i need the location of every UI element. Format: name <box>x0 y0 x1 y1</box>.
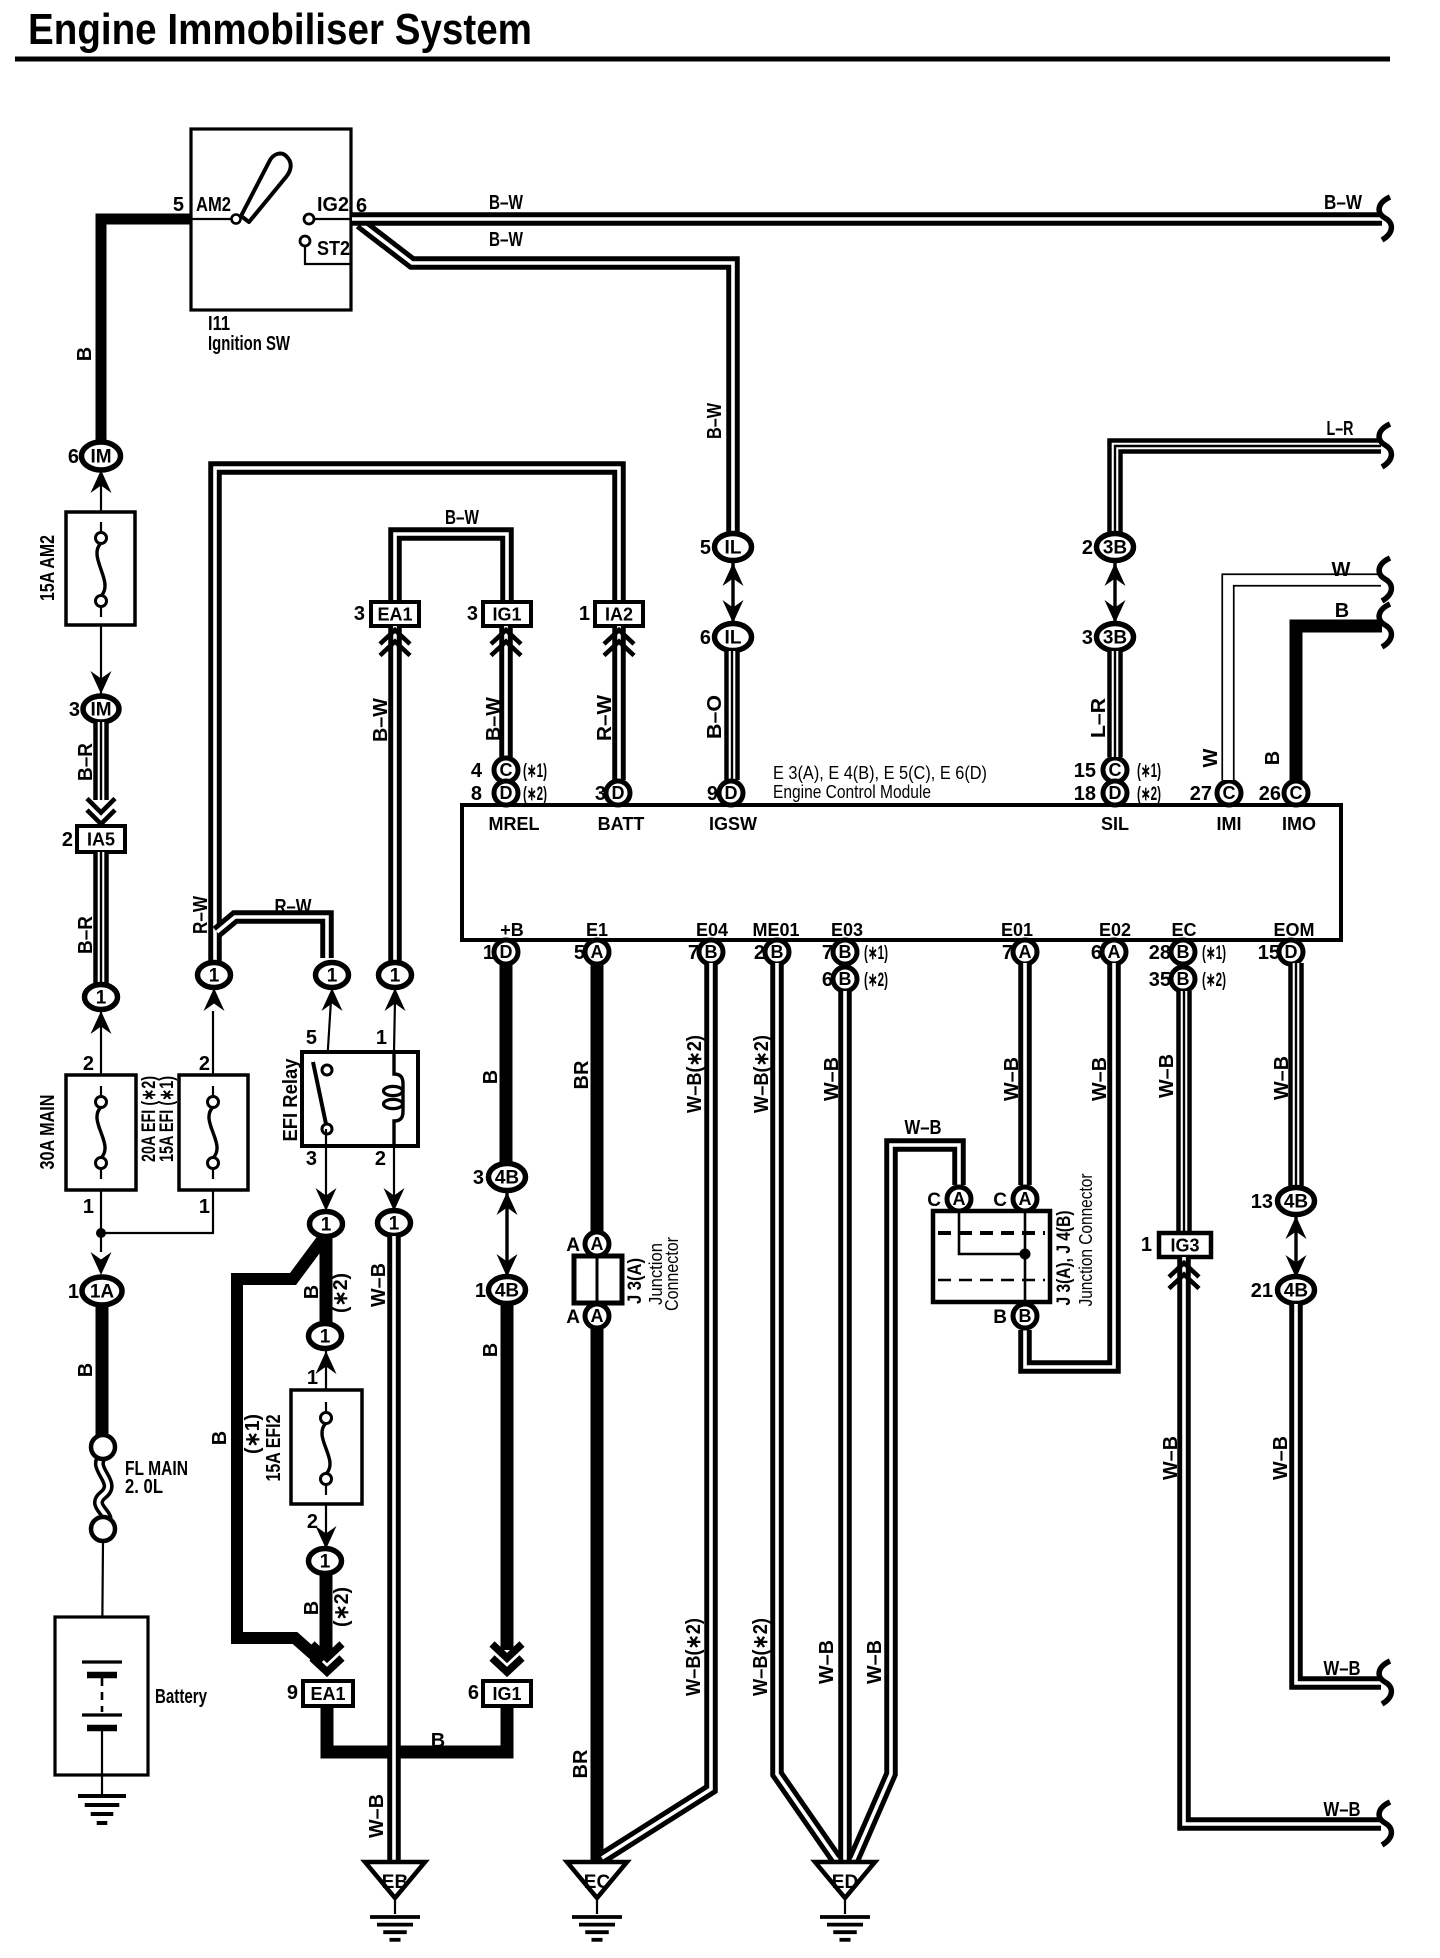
svg-text:ST2: ST2 <box>317 238 350 260</box>
svg-text:A: A <box>591 1306 604 1326</box>
svg-text:3: 3 <box>354 603 365 625</box>
svg-text:D: D <box>725 783 738 803</box>
svg-text:IL: IL <box>725 538 742 559</box>
wire W-B from ECM EOM down to 13 4B <box>1288 963 1304 1187</box>
wire B-W bridge between EA1 and IG1 tops <box>395 534 507 602</box>
svg-text:1: 1 <box>390 966 401 987</box>
connector 1 (above relay pin 1) <box>379 963 412 988</box>
svg-text:B–O: B–O <box>704 695 726 739</box>
wire W-B(*2) from ECM E04 down to EC ground <box>602 963 711 1858</box>
svg-text:EB: EB <box>382 1872 408 1893</box>
svg-text:1A: 1A <box>90 1282 115 1303</box>
svg-text:B: B <box>301 1285 323 1299</box>
svg-text:W–B(∗2): W–B(∗2) <box>683 1618 705 1696</box>
wire: thick B wire from ignition switch AM2 pin down to connector IM <box>101 219 191 443</box>
junction connector J3(A),J4(B) box <box>933 1211 1050 1302</box>
svg-text:IM: IM <box>90 700 111 721</box>
svg-text:9: 9 <box>707 783 718 805</box>
svg-text:1: 1 <box>389 1214 400 1235</box>
wire W-B from IG3 down to right edge <box>1184 1257 1381 1824</box>
wire B-R from IA5 down to connector 1 <box>93 852 109 984</box>
svg-text:2. 0L: 2. 0L <box>125 1476 163 1498</box>
ground EB <box>365 1862 425 1898</box>
svg-text:6: 6 <box>68 446 79 468</box>
svg-text:1: 1 <box>579 603 590 625</box>
svg-text:1: 1 <box>209 966 220 987</box>
svg-text:15A AM2: 15A AM2 <box>37 535 59 601</box>
svg-text:E 3(A), E 4(B), E 5(C), E 6(D): E 3(A), E 4(B), E 5(C), E 6(D) <box>773 763 987 783</box>
svg-text:B: B <box>480 1343 502 1357</box>
svg-text:IG3: IG3 <box>1170 1236 1199 1256</box>
svg-text:6: 6 <box>468 1682 479 1704</box>
EFI Relay box <box>302 1052 418 1146</box>
svg-text:EA1: EA1 <box>377 605 412 625</box>
svg-text:EC: EC <box>584 1872 611 1893</box>
svg-text:A: A <box>1019 1189 1032 1209</box>
arrows between 4B connectors <box>505 1191 508 1277</box>
svg-text:B–W: B–W <box>370 698 392 742</box>
svg-text:R–W: R–W <box>594 695 616 741</box>
svg-text:1: 1 <box>376 1027 387 1049</box>
fuse 30A MAIN <box>66 1075 136 1190</box>
svg-text:W–B: W–B <box>1271 1056 1293 1100</box>
arrow into 1A connector <box>91 1252 112 1275</box>
svg-text:W–B(∗2): W–B(∗2) <box>751 1035 773 1113</box>
svg-text:IM: IM <box>90 447 111 468</box>
wire B thick from EA1 to IG1 (bottom bar) <box>327 1706 507 1752</box>
wire W-B from relay connector down to EB ground <box>387 1236 401 1861</box>
wire: B-W branch from IG2 down to connector IL (5) <box>360 223 733 534</box>
svg-text:A: A <box>591 1234 604 1254</box>
svg-text:W: W <box>1200 748 1222 767</box>
connector 1 (below IA5) <box>85 985 118 1010</box>
svg-text:IGSW: IGSW <box>709 814 757 834</box>
svg-text:B: B <box>993 1307 1007 1328</box>
svg-text:1: 1 <box>1141 1234 1152 1256</box>
svg-text:Engine Immobiliser System: Engine Immobiliser System <box>28 5 532 54</box>
svg-text:W–B: W–B <box>1160 1436 1182 1480</box>
svg-text:E1: E1 <box>586 920 608 940</box>
svg-text:IG1: IG1 <box>492 605 521 625</box>
svg-text:W–B: W–B <box>864 1640 886 1684</box>
fuse 15A AM2 <box>66 512 135 625</box>
wire L-R from 3B to ECM SIL <box>1107 651 1123 757</box>
arrows between 3B connectors <box>1113 561 1116 623</box>
svg-text:1: 1 <box>320 1552 331 1573</box>
svg-text:W–B: W–B <box>821 1057 843 1101</box>
svg-text:BR: BR <box>571 1060 593 1089</box>
svg-text:15: 15 <box>1074 760 1096 782</box>
wire W-B loop from J3/J4 C pin to ED ground <box>854 1145 959 1859</box>
svg-text:ME01: ME01 <box>752 920 799 940</box>
svg-text:EA1: EA1 <box>310 1684 345 1704</box>
svg-text:4: 4 <box>471 760 483 782</box>
svg-text:B–W: B–W <box>445 507 479 529</box>
svg-text:28: 28 <box>1149 942 1171 964</box>
arrows between IL connectors <box>731 561 734 623</box>
svg-text:B–W: B–W <box>489 229 523 251</box>
svg-text:B: B <box>1177 969 1190 989</box>
battery cell plates <box>82 1660 122 1663</box>
svg-text:Junction Connector: Junction Connector <box>1076 1173 1096 1306</box>
svg-text:B: B <box>771 942 784 962</box>
svg-text:5: 5 <box>173 194 184 216</box>
svg-text:3B: 3B <box>1103 538 1127 559</box>
svg-text:5: 5 <box>306 1027 317 1049</box>
svg-text:AM2: AM2 <box>196 194 231 216</box>
svg-text:2: 2 <box>307 1511 318 1533</box>
svg-text:A: A <box>566 1307 580 1328</box>
svg-text:A: A <box>566 1235 580 1256</box>
connector 1 (above 15A EFI2) <box>309 1324 342 1349</box>
svg-text:A: A <box>591 942 604 962</box>
ignition switch I11 box <box>191 129 351 310</box>
svg-text:B: B <box>839 942 852 962</box>
svg-text:15A EFI2: 15A EFI2 <box>263 1415 285 1482</box>
svg-text:W–B: W–B <box>366 1794 388 1838</box>
wire from fusible link to battery <box>102 1541 103 1662</box>
svg-text:D: D <box>612 783 625 803</box>
svg-text:E02: E02 <box>1099 920 1131 940</box>
svg-text:1: 1 <box>321 1215 332 1236</box>
svg-text:W–B: W–B <box>1324 1658 1361 1680</box>
wire from fuse to 3 IM <box>100 625 102 694</box>
svg-text:(∗1): (∗1) <box>1202 943 1226 964</box>
svg-text:W–B: W–B <box>1270 1436 1292 1480</box>
wire B(*1) thick loop from relay connector to 9 EA1 <box>237 1240 322 1662</box>
wire B-R from IM to junction IA5 <box>93 722 109 800</box>
svg-text:(∗2): (∗2) <box>331 1587 353 1627</box>
svg-text:1: 1 <box>96 988 107 1009</box>
AM2 terminal <box>191 218 233 220</box>
wire: B-W from IG2 pin 6 to right edge <box>352 212 1382 226</box>
wire W-B from ECM E02 down to J3/J4 B pin <box>1025 963 1114 1367</box>
wire W-B from 21 4B down to right edge <box>1296 1304 1381 1683</box>
svg-text:A: A <box>1108 942 1121 962</box>
svg-text:1: 1 <box>475 1280 486 1302</box>
svg-text:I11: I11 <box>208 313 230 335</box>
svg-text:E03: E03 <box>831 920 863 940</box>
key symbol inside ignition switch <box>241 154 291 222</box>
svg-text:1: 1 <box>199 1196 210 1218</box>
svg-text:B: B <box>1262 751 1284 765</box>
wire thick B from 1A to fusible link <box>96 1305 109 1437</box>
svg-text:B: B <box>301 1601 323 1615</box>
svg-text:C: C <box>927 1190 941 1211</box>
svg-text:B–R: B–R <box>75 742 97 781</box>
svg-text:(∗2): (∗2) <box>864 970 888 991</box>
wire R-W branch to EFI relay pin 5 <box>217 917 327 958</box>
svg-text:3: 3 <box>473 1167 484 1189</box>
svg-text:(∗1): (∗1) <box>1137 761 1161 782</box>
wire BR thick from ECM E1 down to J3(A) <box>591 963 604 1232</box>
thick arrow into 9 EA1 <box>312 1644 342 1658</box>
svg-text:MREL: MREL <box>489 814 540 834</box>
svg-text:W–B: W–B <box>905 1117 942 1139</box>
svg-text:W–B(∗2): W–B(∗2) <box>684 1035 706 1113</box>
wire B (thick) from ECM IMO to right edge <box>1296 626 1382 780</box>
svg-text:(∗1): (∗1) <box>864 943 888 964</box>
svg-text:EFI Relay: EFI Relay <box>280 1058 302 1142</box>
svg-text:D: D <box>1109 783 1122 803</box>
thick arrow into 6 IG1 <box>492 1644 522 1658</box>
relay switch contact <box>313 1062 326 1124</box>
Engine Control Module box <box>462 805 1341 940</box>
wire from 15A EFI2 pin 2 down <box>325 1504 327 1549</box>
wire B-W from EA1 down to relay coil connector <box>388 626 402 962</box>
svg-text:BR: BR <box>570 1749 592 1778</box>
wire from 20A EFI fuse pin 2 up to connector 1 <box>212 1011 214 1075</box>
svg-text:B: B <box>431 1730 445 1752</box>
wire L-R from 3B connector to right edge <box>1115 446 1381 533</box>
wire from junction dot to 20A EFI fuse pin 1 <box>101 1190 213 1233</box>
svg-text:Connector: Connector <box>662 1237 682 1311</box>
svg-text:9: 9 <box>287 1682 298 1704</box>
ST2 terminal <box>305 246 350 264</box>
svg-text:B: B <box>1019 1306 1032 1326</box>
svg-text:W–B: W–B <box>1324 1799 1361 1821</box>
svg-text:(∗2): (∗2) <box>1137 784 1161 805</box>
connector 1 (below relay pin 3) <box>310 1212 343 1237</box>
svg-text:4B: 4B <box>1284 1281 1308 1302</box>
svg-text:(∗1): (∗1) <box>242 1414 264 1454</box>
svg-text:D: D <box>500 942 513 962</box>
svg-text:B–W: B–W <box>704 403 726 439</box>
wire W from ECM IMI to right edge <box>1228 580 1381 780</box>
svg-text:IA2: IA2 <box>605 605 633 625</box>
svg-text:C: C <box>1109 760 1122 780</box>
svg-text:Engine Control Module: Engine Control Module <box>773 782 931 802</box>
svg-text:13: 13 <box>1251 1191 1273 1213</box>
wire B-W from IG1 down to ECM MREL <box>499 626 513 757</box>
svg-text:2: 2 <box>375 1148 386 1170</box>
svg-text:(∗2): (∗2) <box>523 784 547 805</box>
wire W-B from ECM E03 down to ED ground <box>838 991 852 1861</box>
svg-text:1: 1 <box>327 966 338 987</box>
svg-text:2: 2 <box>83 1053 94 1075</box>
svg-text:(∗2): (∗2) <box>1202 970 1226 991</box>
svg-text:21: 21 <box>1251 1280 1273 1302</box>
svg-text:IA5: IA5 <box>87 830 115 850</box>
svg-text:2: 2 <box>199 1053 210 1075</box>
svg-text:4B: 4B <box>1284 1192 1308 1213</box>
svg-text:1: 1 <box>83 1196 94 1218</box>
wire B(*2) thick from relay connector to 15A EFI2 <box>320 1237 333 1330</box>
wire B-O from IL to ECM IGSW <box>724 651 740 780</box>
svg-text:Battery: Battery <box>155 1686 208 1708</box>
svg-text:3: 3 <box>467 603 478 625</box>
svg-text:26: 26 <box>1259 783 1281 805</box>
svg-text:B–W: B–W <box>483 697 505 741</box>
svg-text:IG1: IG1 <box>492 1684 521 1704</box>
wire break hook B-W right edge <box>1379 197 1391 240</box>
fuse 15A EFI2 <box>291 1390 362 1504</box>
svg-text:W: W <box>1332 559 1351 581</box>
junction connector J3(A) box <box>574 1256 622 1303</box>
svg-text:ED: ED <box>832 1872 858 1893</box>
svg-text:B: B <box>1177 942 1190 962</box>
svg-text:J 3(A), J 4(B): J 3(A), J 4(B) <box>1054 1211 1075 1306</box>
svg-text:(∗1): (∗1) <box>523 761 547 782</box>
connector 1 (below 15A EFI2) <box>309 1549 342 1574</box>
svg-text:3B: 3B <box>1103 628 1127 649</box>
ground EC <box>567 1862 627 1898</box>
svg-text:J 3(A): J 3(A) <box>625 1258 646 1304</box>
wire from relay pin 5 <box>327 1000 331 1064</box>
svg-text:B–W: B–W <box>1324 192 1362 214</box>
svg-text:EOM: EOM <box>1273 920 1314 940</box>
svg-text:6: 6 <box>700 627 711 649</box>
svg-text:W–B: W–B <box>1001 1057 1023 1101</box>
svg-text:C: C <box>1223 783 1236 803</box>
svg-text:W–B: W–B <box>816 1640 838 1684</box>
svg-text:3: 3 <box>306 1148 317 1170</box>
node: junction dot battery feed <box>96 1228 106 1238</box>
svg-text:IMI: IMI <box>1217 814 1242 834</box>
wire R-W: from IA2 top up, across, down to EFI fuse/relay <box>215 468 619 962</box>
svg-text:1: 1 <box>68 1281 79 1303</box>
svg-text:B: B <box>75 1363 97 1377</box>
svg-text:IG2: IG2 <box>317 194 349 216</box>
svg-text:C: C <box>993 1190 1007 1211</box>
ground below battery <box>101 1775 103 1794</box>
svg-text:5: 5 <box>700 537 711 559</box>
svg-text:B: B <box>1335 600 1349 622</box>
svg-text:(∗2): (∗2) <box>330 1273 352 1313</box>
connector 1 (above 20A EFI fuse) <box>198 963 231 988</box>
svg-text:Ignition SW: Ignition SW <box>208 333 290 355</box>
svg-text:8: 8 <box>471 783 482 805</box>
svg-text:SIL: SIL <box>1101 814 1129 834</box>
svg-text:W–B(∗2): W–B(∗2) <box>750 1618 772 1696</box>
ground ED <box>815 1862 875 1898</box>
svg-text:A: A <box>1019 942 1032 962</box>
svg-text:4B: 4B <box>495 1281 519 1302</box>
svg-text:B: B <box>705 942 718 962</box>
svg-text:18: 18 <box>1074 783 1096 805</box>
wire B thick from 1 4B down to 6 IG1 <box>501 1304 514 1650</box>
svg-text:30A MAIN: 30A MAIN <box>37 1095 59 1170</box>
svg-text:B: B <box>839 969 852 989</box>
svg-text:E01: E01 <box>1001 920 1033 940</box>
svg-text:W–B: W–B <box>1156 1054 1178 1098</box>
svg-text:27: 27 <box>1190 783 1212 805</box>
fuse 20A EFI(*2) / 15A EFI(*1) <box>179 1075 248 1190</box>
relay pin 3 wire down to connector <box>325 1129 327 1202</box>
svg-text:R–W: R–W <box>190 896 212 934</box>
svg-text:1: 1 <box>307 1367 318 1389</box>
wire from relay pin 1 <box>394 1000 395 1052</box>
svg-text:BATT: BATT <box>598 814 645 834</box>
svg-text:35: 35 <box>1149 969 1171 991</box>
relay coil <box>394 1052 403 1146</box>
svg-text:L–R: L–R <box>1327 418 1354 440</box>
svg-text:L–R: L–R <box>1088 697 1110 738</box>
IG2 terminal <box>313 218 351 220</box>
svg-text:W–B: W–B <box>368 1263 390 1307</box>
svg-text:B: B <box>74 347 96 361</box>
wire to 15A EFI2 fuse <box>325 1351 327 1390</box>
svg-text:R–W: R–W <box>275 896 312 918</box>
svg-text:A: A <box>953 1189 966 1209</box>
svg-text:C: C <box>1290 783 1303 803</box>
svg-text:2: 2 <box>62 829 73 851</box>
svg-text:4B: 4B <box>495 1168 519 1189</box>
svg-text:B: B <box>209 1431 231 1445</box>
arrows between 4B connectors (right) <box>1294 1215 1297 1278</box>
wire B(*2) thick from connector to 9 EA1 <box>320 1575 333 1655</box>
node: junction dot inside J3/J4 <box>1020 1249 1031 1260</box>
svg-text:IMO: IMO <box>1282 814 1316 834</box>
wire W-B from ECM E01 down to J3/J4 C pin <box>1018 963 1032 1185</box>
wire R-W from IA2 down to ECM BATT <box>612 626 626 780</box>
svg-text:E04: E04 <box>696 920 728 940</box>
svg-text:3: 3 <box>69 699 80 721</box>
svg-text:D: D <box>500 783 513 803</box>
svg-text:1: 1 <box>320 1327 331 1348</box>
wire to fuse <box>100 470 102 533</box>
svg-text:B: B <box>480 1070 502 1084</box>
svg-text:15A EFI (∗1): 15A EFI (∗1) <box>157 1076 178 1162</box>
wire W-B from ECM EC down to IG3 <box>1176 991 1192 1233</box>
battery box <box>55 1617 148 1775</box>
connector 1 (below relay pin 2) <box>378 1211 411 1236</box>
svg-text:D: D <box>1285 942 1298 962</box>
wire W-B(*2) from ECM ME01 down to ED ground <box>777 963 836 1859</box>
wire BR thick from J3(A) down to EC ground <box>591 1329 604 1861</box>
wire to fuse 30A MAIN <box>100 1011 102 1075</box>
svg-text:W–B: W–B <box>1089 1057 1111 1101</box>
relay pin 2 wire down to connector <box>393 1146 395 1202</box>
fusible link FL MAIN 2.0L <box>98 1455 108 1524</box>
svg-text:EC: EC <box>1171 920 1196 940</box>
svg-text:2: 2 <box>1082 537 1093 559</box>
svg-text:IL: IL <box>725 628 742 649</box>
svg-text:3: 3 <box>1082 627 1093 649</box>
svg-text:+B: +B <box>500 920 524 940</box>
wire B thick from ECM +B down to 3 4B <box>500 963 513 1163</box>
svg-text:C: C <box>500 760 513 780</box>
connector 1 (above relay pin 5) <box>316 963 349 988</box>
svg-text:B–R: B–R <box>75 915 97 954</box>
svg-text:B–W: B–W <box>489 192 523 214</box>
